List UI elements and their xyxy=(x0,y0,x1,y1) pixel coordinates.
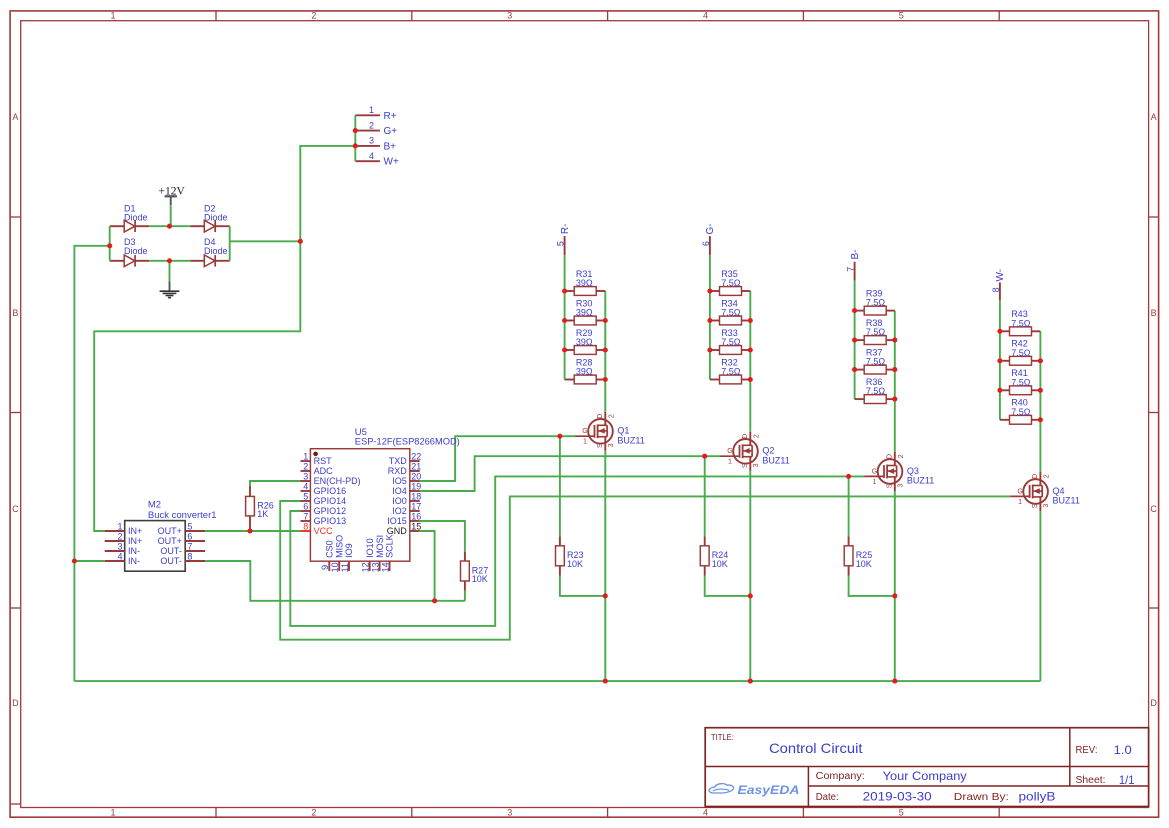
svg-text:10K: 10K xyxy=(472,574,488,584)
svg-text:16: 16 xyxy=(411,511,421,521)
svg-text:BUZ11: BUZ11 xyxy=(762,455,789,465)
junction ladder G- right row 2 xyxy=(748,318,753,323)
junction GND column on OUT- rail xyxy=(432,598,437,603)
svg-text:IN-: IN- xyxy=(128,556,140,566)
svg-text:7.5Ω: 7.5Ω xyxy=(866,357,886,367)
svg-text:1.0: 1.0 xyxy=(1114,743,1132,757)
pin 8 net W- header pin xyxy=(991,269,1006,300)
svg-text:G-: G- xyxy=(705,223,716,234)
junction ladder R- right row 3 xyxy=(603,347,608,352)
junction header pin3 xyxy=(353,143,358,148)
svg-text:1: 1 xyxy=(1018,499,1022,506)
svg-text:Drawn By:: Drawn By: xyxy=(954,792,1009,803)
svg-text:10K: 10K xyxy=(567,559,583,569)
diode D1 xyxy=(124,203,148,232)
+12V power symbol xyxy=(159,185,186,205)
diode D4 xyxy=(204,237,228,267)
svg-text:Your Company: Your Company xyxy=(883,769,967,783)
svg-text:Diode: Diode xyxy=(124,213,148,223)
svg-text:1: 1 xyxy=(110,10,115,20)
junction Q2 source column xyxy=(748,593,753,598)
svg-text:GPIO13: GPIO13 xyxy=(314,516,347,526)
svg-text:OUT-: OUT- xyxy=(160,546,182,556)
svg-text:4: 4 xyxy=(703,10,708,20)
svg-text:Control Circuit: Control Circuit xyxy=(769,740,863,756)
svg-text:21: 21 xyxy=(411,461,421,471)
svg-text:14: 14 xyxy=(380,562,390,572)
wire R25 bottom to Q3 source xyxy=(849,576,895,596)
wire ladder left vertical W- xyxy=(999,331,1001,420)
svg-text:39Ω: 39Ω xyxy=(576,337,593,347)
junction ladder B- left row 1 xyxy=(852,308,857,313)
svg-text:5: 5 xyxy=(556,241,566,246)
wire IO15 to R27 xyxy=(420,521,465,552)
wire Q4 source to bottom bus xyxy=(1039,511,1041,681)
resistor R25 10K xyxy=(844,476,872,575)
svg-text:MOSI: MOSI xyxy=(375,535,385,558)
svg-text:5: 5 xyxy=(899,807,904,817)
junction ladder W- left row 3 xyxy=(997,388,1002,393)
ground xyxy=(160,281,180,297)
wire bridge right vertical xyxy=(229,226,231,261)
svg-text:RXD: RXD xyxy=(388,466,408,476)
junction ladder G- left row 1 xyxy=(707,288,712,293)
svg-text:39Ω: 39Ω xyxy=(576,308,593,318)
wire IO4 to Q2 gate xyxy=(420,456,721,491)
svg-text:OUT+: OUT+ xyxy=(158,536,182,546)
svg-text:ADC: ADC xyxy=(314,466,334,476)
svg-text:2: 2 xyxy=(1044,474,1051,478)
svg-text:4: 4 xyxy=(117,551,122,561)
svg-text:7.5Ω: 7.5Ω xyxy=(866,327,886,337)
svg-text:A: A xyxy=(1151,112,1157,122)
svg-text:G: G xyxy=(727,448,732,455)
pin 6 net G- header pin xyxy=(701,223,716,255)
svg-text:3: 3 xyxy=(1043,504,1050,508)
svg-text:1: 1 xyxy=(873,479,877,486)
wire +12V to bridge top rail xyxy=(170,205,172,226)
wire ladder right vertical G- to Q2 drain xyxy=(749,291,751,432)
junction ladder B- right row 4 xyxy=(892,397,897,402)
svg-text:15: 15 xyxy=(411,521,421,531)
svg-text:7.5Ω: 7.5Ω xyxy=(721,367,741,377)
svg-text:8: 8 xyxy=(303,521,308,531)
svg-text:3: 3 xyxy=(608,443,615,447)
resistor R35 7.5ohm xyxy=(710,269,750,296)
svg-text:R-: R- xyxy=(560,224,571,235)
svg-text:B+: B+ xyxy=(384,141,397,152)
diode D3 xyxy=(124,237,148,267)
svg-text:BUZ11: BUZ11 xyxy=(1053,496,1080,506)
svg-text:4: 4 xyxy=(369,151,374,161)
transistor Q4 BUZ11 xyxy=(1010,472,1080,511)
wire G- pin to ladder left xyxy=(709,255,711,291)
junction ladder R- left row 3 xyxy=(562,347,567,352)
junction Q3 source column xyxy=(892,593,897,598)
svg-text:1/1: 1/1 xyxy=(1119,773,1135,787)
svg-text:IO15: IO15 xyxy=(387,516,407,526)
junction ladder W- left row 2 xyxy=(997,358,1002,363)
svg-text:7: 7 xyxy=(303,511,308,521)
resistor R42 7.5ohm xyxy=(1000,339,1041,366)
junction Q1 source column xyxy=(603,593,608,598)
svg-text:SCLK: SCLK xyxy=(385,534,395,558)
junction ladder G- right row 4 xyxy=(748,377,753,382)
wire bridge bottom to ground xyxy=(169,261,171,282)
junction B+ column / D4 output xyxy=(298,239,303,244)
svg-text:3: 3 xyxy=(303,471,308,481)
wire R27 bottom to OUT- rail xyxy=(464,591,466,601)
wire Q3 source to bottom bus xyxy=(894,491,896,681)
svg-text:2: 2 xyxy=(117,531,122,541)
svg-text:1: 1 xyxy=(728,459,732,466)
svg-text:1K: 1K xyxy=(257,509,268,519)
EasyEDA logo xyxy=(709,784,799,797)
connector header pins 1-4 R+ G+ B+ W+ xyxy=(355,105,399,168)
svg-text:GPIO14: GPIO14 xyxy=(314,496,347,506)
svg-text:10K: 10K xyxy=(856,559,872,569)
wire bottom common bus xyxy=(74,680,1040,682)
svg-text:D: D xyxy=(886,454,893,459)
svg-text:VCC: VCC xyxy=(314,526,334,536)
junction bus Q1 xyxy=(603,679,608,684)
wire buck IN- to minus rail xyxy=(74,560,104,562)
svg-text:Diode: Diode xyxy=(204,213,228,223)
svg-text:TXD: TXD xyxy=(389,456,408,466)
svg-text:1: 1 xyxy=(117,521,122,531)
resistor R36 7.5ohm xyxy=(855,377,895,404)
wire OUT+ to VCC xyxy=(205,530,300,532)
svg-text:Q1: Q1 xyxy=(617,426,629,436)
wire bridge output D4 to B+ column xyxy=(230,240,301,242)
svg-text:EN(CH-PD): EN(CH-PD) xyxy=(314,476,361,486)
svg-text:B: B xyxy=(1151,308,1157,318)
svg-text:2: 2 xyxy=(608,414,615,418)
svg-text:7: 7 xyxy=(846,267,856,272)
wire ladder left vertical R- xyxy=(564,291,566,380)
svg-text:7.5Ω: 7.5Ω xyxy=(1011,407,1031,417)
svg-text:17: 17 xyxy=(411,501,421,511)
title block xyxy=(705,728,1148,807)
svg-text:Q3: Q3 xyxy=(907,466,919,476)
svg-text:G: G xyxy=(1017,488,1022,495)
svg-text:C: C xyxy=(12,504,19,514)
svg-text:Q4: Q4 xyxy=(1053,486,1065,496)
svg-text:10K: 10K xyxy=(712,559,728,569)
resistor R32 7.5ohm xyxy=(710,357,750,384)
svg-text:W+: W+ xyxy=(384,157,399,168)
resistor R26 1K xyxy=(246,486,274,531)
svg-text:2019-03-30: 2019-03-30 xyxy=(863,790,932,804)
resistor R38 7.5ohm xyxy=(855,318,895,345)
svg-text:7.5Ω: 7.5Ω xyxy=(866,298,886,308)
wire B+ net: header to bridge output and buck IN+ xyxy=(94,146,355,531)
transistor Q2 BUZ11 xyxy=(720,432,790,471)
svg-text:BUZ11: BUZ11 xyxy=(907,476,934,486)
svg-text:REV:: REV: xyxy=(1076,745,1098,756)
junction ladder B- left row 3 xyxy=(852,367,857,372)
svg-text:12: 12 xyxy=(361,562,371,572)
resistor R30 39ohm xyxy=(565,298,606,325)
svg-text:2: 2 xyxy=(898,454,905,458)
svg-text:5: 5 xyxy=(899,10,904,20)
resistor R41 7.5ohm xyxy=(1000,368,1041,395)
wire R23 bottom to Q1 source xyxy=(560,576,605,596)
svg-text:39Ω: 39Ω xyxy=(576,278,593,288)
svg-text:Company:: Company: xyxy=(816,771,865,782)
svg-text:Sheet:: Sheet: xyxy=(1076,775,1106,786)
junction ladder R- left row 2 xyxy=(562,318,567,323)
resistor R28 39ohm xyxy=(565,357,606,384)
svg-text:IN+: IN+ xyxy=(128,526,142,536)
svg-text:B: B xyxy=(12,308,18,318)
resistor R23 10K xyxy=(556,436,584,575)
svg-text:11: 11 xyxy=(340,563,350,572)
resistor R34 7.5ohm xyxy=(710,298,750,325)
junction ladder G- right row 3 xyxy=(748,347,753,352)
wire ladder left vertical B- xyxy=(854,311,856,400)
junction bus Q2 xyxy=(748,679,753,684)
svg-text:7.5Ω: 7.5Ω xyxy=(721,337,741,347)
wire R24 bottom to Q2 source xyxy=(705,576,751,596)
svg-text:7: 7 xyxy=(187,541,192,551)
svg-text:7.5Ω: 7.5Ω xyxy=(1011,318,1031,328)
svg-text:ESP-12F(ESP8266MOD): ESP-12F(ESP8266MOD) xyxy=(355,437,460,448)
wire bridge left to main minus rail xyxy=(74,246,109,681)
resistor R24 10K xyxy=(700,456,728,575)
svg-text:Q2: Q2 xyxy=(762,446,774,456)
wire ladder left vertical G- xyxy=(709,291,711,380)
chip U5 ESP-12F(ESP8266MOD) xyxy=(301,427,460,573)
junction ladder R- right row 4 xyxy=(603,377,608,382)
svg-text:8: 8 xyxy=(991,287,1001,292)
svg-text:1: 1 xyxy=(110,807,115,817)
svg-text:1: 1 xyxy=(303,451,308,461)
wire ladder right vertical B- to Q3 drain xyxy=(894,311,896,452)
svg-text:7.5Ω: 7.5Ω xyxy=(721,308,741,318)
pin 5 net R- header pin xyxy=(556,224,571,255)
svg-text:3: 3 xyxy=(507,807,512,817)
svg-text:D: D xyxy=(12,698,19,708)
wire bridge top rail segments xyxy=(110,225,125,227)
svg-text:W-: W- xyxy=(995,269,1006,282)
svg-text:R+: R+ xyxy=(384,111,397,122)
wire OUT- rail xyxy=(205,561,465,601)
junction ladder R- right row 2 xyxy=(603,318,608,323)
wire header vertical R+..W+ xyxy=(354,115,356,161)
svg-text:7.5Ω: 7.5Ω xyxy=(1011,377,1031,387)
svg-text:IO2: IO2 xyxy=(392,506,407,516)
svg-text:IO5: IO5 xyxy=(392,476,407,486)
junction R23 top xyxy=(557,434,562,439)
wire EN to R26 xyxy=(250,481,301,486)
svg-text:1: 1 xyxy=(583,439,587,446)
svg-text:3: 3 xyxy=(898,484,905,488)
junction header pin2 xyxy=(353,128,358,133)
svg-text:C: C xyxy=(1150,504,1157,514)
junction ladder B- right row 2 xyxy=(892,338,897,343)
svg-text:D: D xyxy=(1150,698,1157,708)
wire bridge left vertical xyxy=(109,226,111,261)
junction R26 bottom xyxy=(247,528,252,533)
svg-text:S: S xyxy=(742,463,749,468)
wire GPIO14 to Q4 gate xyxy=(280,496,1010,639)
svg-text:5: 5 xyxy=(187,521,192,531)
resistor R37 7.5ohm xyxy=(855,347,895,374)
resistor R39 7.5ohm xyxy=(855,288,895,315)
wire R- pin to ladder left xyxy=(564,255,566,291)
svg-text:Buck converter1: Buck converter1 xyxy=(148,510,217,521)
junction bridge top center xyxy=(167,224,172,229)
svg-text:7.5Ω: 7.5Ω xyxy=(721,278,741,288)
resistor R40 7.5ohm xyxy=(1000,398,1041,425)
transistor Q3 BUZ11 xyxy=(865,452,935,491)
svg-text:19: 19 xyxy=(411,481,421,491)
svg-text:G: G xyxy=(872,468,877,475)
svg-text:10: 10 xyxy=(330,562,340,572)
svg-text:G: G xyxy=(582,428,587,435)
svg-text:2: 2 xyxy=(311,10,316,20)
junction bridge left xyxy=(107,243,112,248)
svg-text:3: 3 xyxy=(753,463,760,467)
svg-text:A: A xyxy=(12,112,18,122)
transistor Q1 BUZ11 xyxy=(575,412,645,451)
junction ladder G- left row 3 xyxy=(707,347,712,352)
wire W- pin to ladder left xyxy=(999,300,1001,331)
svg-text:OUT-: OUT- xyxy=(160,556,182,566)
svg-text:pollyB: pollyB xyxy=(1019,790,1056,804)
junction ladder W- left row 1 xyxy=(997,329,1002,334)
svg-text:BUZ11: BUZ11 xyxy=(617,435,644,445)
svg-text:IN+: IN+ xyxy=(128,536,142,546)
svg-text:Date:: Date: xyxy=(816,792,839,803)
svg-text:3: 3 xyxy=(369,136,374,146)
svg-text:Diode: Diode xyxy=(124,246,148,256)
svg-text:13: 13 xyxy=(371,562,381,572)
svg-text:TITLE:: TITLE: xyxy=(711,732,734,742)
svg-text:G+: G+ xyxy=(384,126,398,137)
svg-text:5: 5 xyxy=(303,491,308,501)
svg-text:4: 4 xyxy=(303,481,308,491)
wire IO5 to Q1 gate xyxy=(420,436,576,481)
svg-text:IO10: IO10 xyxy=(365,538,375,558)
wire Q2 source to bottom bus xyxy=(749,471,751,681)
resistor R29 39ohm xyxy=(565,328,606,355)
svg-text:S: S xyxy=(597,443,604,448)
diode D2 xyxy=(204,203,228,232)
svg-text:GPIO12: GPIO12 xyxy=(314,506,347,516)
svg-text:2: 2 xyxy=(303,461,308,471)
junction ladder W- right row 2 xyxy=(1038,358,1043,363)
junction ladder B- left row 2 xyxy=(852,338,857,343)
svg-text:D: D xyxy=(1032,474,1039,479)
svg-text:6: 6 xyxy=(701,241,711,246)
svg-text:3: 3 xyxy=(507,10,512,20)
svg-text:CS0: CS0 xyxy=(325,540,335,558)
junction R25 top xyxy=(846,474,851,479)
svg-text:IO0: IO0 xyxy=(392,496,407,506)
svg-text:9: 9 xyxy=(320,565,330,570)
svg-text:2: 2 xyxy=(369,120,374,130)
module M2 Buck converter1 xyxy=(105,500,217,571)
junction bus Q3 xyxy=(892,679,897,684)
wire ladder right vertical R- to Q1 drain xyxy=(604,291,606,412)
junction ladder R- left row 1 xyxy=(562,288,567,293)
wire GND pin to OUT- rail xyxy=(420,531,435,601)
svg-text:2: 2 xyxy=(753,434,760,438)
resistor R31 39ohm xyxy=(565,269,606,296)
svg-text:B-: B- xyxy=(850,250,861,260)
junction ladder W- right row 3 xyxy=(1038,388,1043,393)
pin 7 net B- header pin xyxy=(846,250,861,281)
resistor R43 7.5ohm xyxy=(1000,309,1041,336)
svg-text:22: 22 xyxy=(411,451,421,461)
svg-text:2: 2 xyxy=(311,807,316,817)
resistor R33 7.5ohm xyxy=(710,328,750,355)
svg-text:7.5Ω: 7.5Ω xyxy=(1011,348,1031,358)
svg-text:20: 20 xyxy=(411,471,421,481)
svg-text:RST: RST xyxy=(314,456,333,466)
svg-text:4: 4 xyxy=(703,807,708,817)
svg-text:8: 8 xyxy=(187,551,192,561)
junction ladder B- right row 3 xyxy=(892,367,897,372)
svg-text:6: 6 xyxy=(303,501,308,511)
svg-text:S: S xyxy=(1032,503,1039,508)
svg-text:D: D xyxy=(597,414,604,419)
junction ladder G- left row 2 xyxy=(707,318,712,323)
svg-text:IO4: IO4 xyxy=(392,486,407,496)
svg-text:3: 3 xyxy=(117,541,122,551)
resistor R27 10K xyxy=(461,552,489,591)
svg-text:1: 1 xyxy=(369,105,374,115)
svg-text:18: 18 xyxy=(411,491,421,501)
svg-text:39Ω: 39Ω xyxy=(576,367,593,377)
wire B- pin to ladder left xyxy=(854,281,856,311)
svg-text:6: 6 xyxy=(187,531,192,541)
wire ladder right vertical W- to Q4 drain xyxy=(1039,331,1041,472)
svg-text:S: S xyxy=(886,483,893,488)
junction bridge bottom center xyxy=(167,258,172,263)
wire bridge bottom rail segments xyxy=(110,260,125,262)
svg-text:IO9: IO9 xyxy=(344,543,354,558)
svg-text:OUT+: OUT+ xyxy=(158,526,182,536)
svg-text:EasyEDA: EasyEDA xyxy=(738,785,800,797)
svg-text:D: D xyxy=(742,434,749,439)
junction R24 top xyxy=(702,454,707,459)
junction minus rail IN- xyxy=(72,558,77,563)
wire Q1 source to bottom bus xyxy=(604,451,606,681)
svg-text:Diode: Diode xyxy=(204,246,228,256)
svg-text:GPIO16: GPIO16 xyxy=(314,486,347,496)
svg-text:MISO: MISO xyxy=(334,535,344,558)
wire GPIO12 to Q3 gate xyxy=(290,476,864,626)
svg-text:7.5Ω: 7.5Ω xyxy=(866,386,886,396)
svg-text:IN-: IN- xyxy=(128,546,140,556)
junction ladder W- right row 4 xyxy=(1038,417,1043,422)
